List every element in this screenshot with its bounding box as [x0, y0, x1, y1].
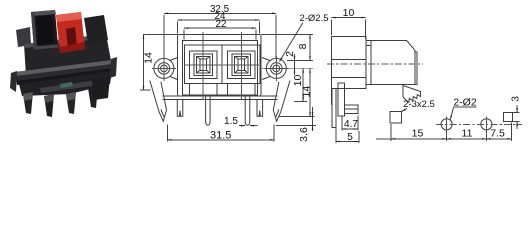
svg-text:2-Ø2.5: 2-Ø2.5 [299, 13, 328, 24]
svg-text:14: 14 [301, 86, 313, 98]
svg-text:2-3x2.5: 2-3x2.5 [403, 99, 435, 110]
svg-text:4.7: 4.7 [344, 119, 358, 130]
svg-text:2-Ø2: 2-Ø2 [453, 97, 477, 109]
svg-text:15: 15 [412, 128, 424, 140]
svg-text:2: 2 [284, 51, 296, 57]
svg-text:11: 11 [462, 128, 473, 140]
svg-text:14: 14 [142, 52, 154, 64]
svg-text:10: 10 [292, 75, 304, 87]
svg-text:8: 8 [297, 43, 309, 49]
svg-text:5: 5 [347, 132, 353, 143]
svg-text:22: 22 [216, 19, 227, 30]
svg-text:1.5: 1.5 [224, 116, 238, 127]
svg-text:3.6: 3.6 [298, 127, 310, 142]
svg-text:7.5: 7.5 [490, 128, 505, 140]
svg-text:3: 3 [511, 96, 522, 102]
svg-text:10: 10 [343, 7, 355, 19]
svg-text:31.5: 31.5 [210, 129, 231, 141]
